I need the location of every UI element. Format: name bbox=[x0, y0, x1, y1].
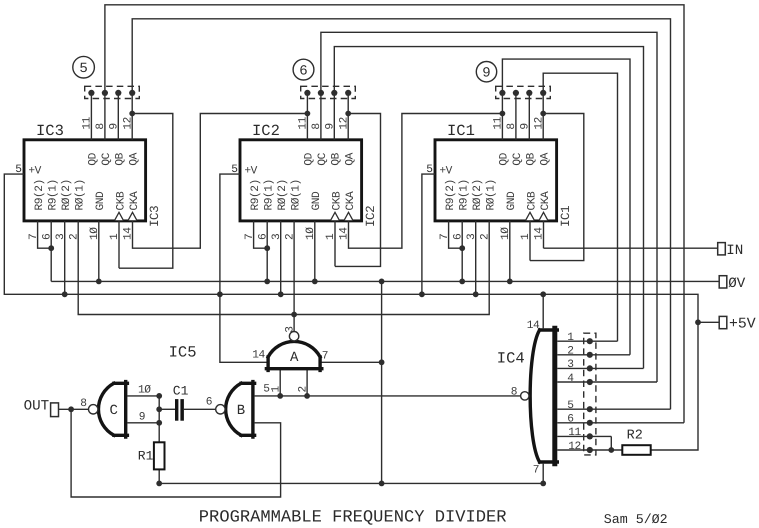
wire IC5 pin7 to 0V bbox=[320, 361, 382, 363]
clock triangle CKA IC3 bbox=[128, 212, 137, 220]
op-amp gate C IC5 bbox=[89, 382, 128, 437]
junction R9 IC2 bbox=[264, 245, 270, 251]
connector block IC3 bbox=[85, 86, 140, 98]
counter IC3 bbox=[24, 140, 146, 221]
clock triangle CKA IC2 bbox=[344, 212, 353, 220]
junction IC4 block pin 5 bbox=[587, 406, 593, 412]
svg-text:+V: +V bbox=[439, 166, 452, 178]
svg-text:IC1: IC1 bbox=[559, 206, 573, 227]
junction IC2 pin 8 block bbox=[318, 90, 324, 96]
junction R9 IC1 bbox=[459, 245, 465, 251]
nand IC4 bbox=[552, 328, 557, 463]
svg-text:CKA: CKA bbox=[540, 191, 552, 211]
junction IC4 block pin 3 bbox=[587, 365, 593, 371]
junction IC2 pin3 +V bbox=[278, 291, 284, 297]
svg-text:14: 14 bbox=[252, 349, 265, 361]
svg-text:8: 8 bbox=[95, 123, 107, 129]
wire IC3 top pin 8 bbox=[104, 93, 106, 140]
svg-text:QC: QC bbox=[317, 152, 329, 165]
wire IC2 top pin 8 bbox=[320, 93, 322, 140]
junction IC4 block pin 2 bbox=[587, 352, 593, 358]
circled 5 bbox=[73, 56, 95, 78]
wire gate A pin2 bbox=[306, 369, 308, 396]
wire IC1 top pin 9 bbox=[528, 93, 530, 140]
junction R9 IC3 bbox=[48, 245, 54, 251]
svg-text:R9(2): R9(2) bbox=[249, 179, 262, 210]
svg-text:6: 6 bbox=[299, 64, 307, 80]
svg-text:5: 5 bbox=[79, 61, 87, 77]
svg-text:RØ(1): RØ(1) bbox=[290, 179, 303, 210]
svg-text:9: 9 bbox=[482, 66, 490, 82]
svg-text:CKB: CKB bbox=[526, 191, 538, 211]
wire IC4 pin11 drop bbox=[610, 436, 612, 450]
op-amp gate A IC5 bbox=[266, 332, 321, 371]
connector +5V bbox=[719, 316, 727, 328]
svg-text:IC1: IC1 bbox=[447, 122, 475, 140]
wire IC1 pin3 bbox=[475, 221, 477, 294]
svg-text:+V: +V bbox=[244, 166, 257, 178]
wire IC4 pin 12 bbox=[557, 449, 622, 451]
wire B pin5 to IC4 pin8 bbox=[255, 395, 521, 397]
connector OUT bbox=[51, 403, 59, 417]
wire gate C pin9 bbox=[127, 422, 159, 424]
wire gate A pin1 bbox=[279, 369, 281, 396]
wire bus QC3 to IC4 pin6 bbox=[105, 5, 684, 423]
wire R1 bottom bbox=[158, 469, 160, 483]
svg-text:8: 8 bbox=[511, 387, 517, 399]
wire bus QB2 to IC4 pin3 bbox=[334, 47, 643, 369]
counter IC1 bbox=[435, 140, 557, 221]
junction IC3 pin3 +V bbox=[62, 291, 68, 297]
junction IC2 pin 11 block bbox=[304, 90, 310, 96]
wire C1 to B pin6 bbox=[184, 408, 216, 410]
svg-text:1Ø: 1Ø bbox=[138, 384, 151, 396]
junction IC1 pin 12 block bbox=[540, 90, 546, 96]
wire node to C1 bbox=[159, 408, 175, 410]
wire IC1 top pin 11 bbox=[501, 93, 503, 140]
wire IC3 top pin 12 bbox=[131, 93, 133, 140]
junction IC4 +V bbox=[540, 291, 546, 297]
wire IC2 top pin 11 bbox=[306, 93, 308, 140]
svg-text:R2: R2 bbox=[627, 429, 643, 444]
clock triangle CKB IC2 bbox=[331, 212, 340, 220]
wire IC3 top pin 9 bbox=[117, 93, 119, 140]
junction +5V bbox=[695, 319, 701, 325]
wire +V bus bbox=[4, 174, 698, 450]
svg-text:2: 2 bbox=[567, 346, 573, 358]
svg-text:QD: QD bbox=[499, 152, 511, 165]
svg-text:QB: QB bbox=[115, 152, 127, 165]
svg-text:R9(2): R9(2) bbox=[33, 179, 46, 210]
svg-text:CKA: CKA bbox=[129, 191, 141, 211]
resistor R1 bbox=[154, 442, 165, 469]
wire IC2 pin10 bbox=[314, 221, 316, 282]
junction QA1 bbox=[540, 111, 546, 117]
junction IC4 block pin 11 bbox=[587, 433, 593, 439]
svg-text:IC3: IC3 bbox=[148, 206, 162, 227]
svg-text:11: 11 bbox=[493, 116, 505, 129]
wire bus QD1 to IC4 pin2 bbox=[502, 59, 630, 355]
svg-text:3: 3 bbox=[284, 327, 296, 333]
resistor R2 bbox=[622, 445, 650, 455]
junction QD1 bbox=[500, 111, 506, 117]
svg-text:IN: IN bbox=[726, 243, 743, 259]
svg-text:CKA: CKA bbox=[345, 191, 357, 211]
svg-text:12: 12 bbox=[122, 117, 134, 130]
junction OUT bbox=[68, 406, 74, 412]
wire bus QC2 to IC4 pin4 bbox=[321, 32, 657, 382]
junction IC4 block pin 1 bbox=[587, 338, 593, 344]
svg-text:+5V: +5V bbox=[729, 317, 756, 333]
junction GND2 bbox=[312, 279, 318, 285]
junction IC2 pin 9 block bbox=[331, 90, 337, 96]
svg-text:4: 4 bbox=[567, 373, 574, 385]
connector 0V bbox=[719, 276, 727, 288]
svg-text:RØ(2): RØ(2) bbox=[276, 179, 289, 210]
svg-text:Sam 5/Ø2: Sam 5/Ø2 bbox=[604, 512, 668, 527]
svg-text:11: 11 bbox=[82, 116, 94, 129]
wire IN to CKA1 bbox=[544, 221, 718, 248]
wire reset bus bbox=[78, 221, 489, 315]
wire IC3 pin1 bbox=[118, 221, 120, 268]
svg-text:QC: QC bbox=[512, 152, 524, 165]
wire IC3 pin10 bbox=[98, 221, 100, 282]
wire IC4 pin 11 bbox=[557, 435, 611, 437]
counter IC2 bbox=[240, 140, 362, 221]
junction 0V drop bbox=[379, 279, 385, 285]
clock triangle CKB IC3 bbox=[115, 212, 124, 220]
svg-text:B: B bbox=[237, 403, 245, 419]
svg-text:5: 5 bbox=[263, 384, 269, 396]
wire IC4 pin 3 bbox=[557, 367, 643, 369]
connector block IC4 bbox=[584, 333, 596, 455]
junction IC1 +V bbox=[419, 291, 425, 297]
svg-text:8: 8 bbox=[80, 398, 86, 410]
wire IC1 pin5 bbox=[422, 174, 435, 294]
svg-text:R9(1): R9(1) bbox=[47, 179, 60, 210]
wire QD1 to CKA2 bbox=[349, 114, 503, 249]
svg-text:8: 8 bbox=[311, 123, 323, 129]
svg-text:6: 6 bbox=[567, 414, 573, 426]
wire IC3 pin3 bbox=[64, 221, 66, 294]
wire IC4 pin 2 bbox=[557, 354, 630, 356]
wire IC1 pin6 bbox=[461, 221, 463, 282]
junction IC2 pin6 0V bbox=[264, 279, 270, 285]
svg-text:QB: QB bbox=[526, 152, 538, 165]
junction C node C1 bbox=[156, 406, 162, 412]
svg-text:R9(2): R9(2) bbox=[444, 179, 457, 210]
svg-text:2: 2 bbox=[298, 386, 310, 392]
op-amp gate B IC5 bbox=[216, 382, 255, 437]
svg-text:12: 12 bbox=[338, 117, 350, 130]
junction IC4 block pin 4 bbox=[587, 379, 593, 385]
circled 6 bbox=[293, 59, 314, 80]
wire IC2 top pin 9 bbox=[333, 93, 335, 140]
wire IC2 pin6 bbox=[266, 221, 268, 282]
connector IN bbox=[718, 243, 726, 255]
wire feedback OUT to B pin4 bbox=[71, 409, 281, 497]
junction IC2 +V bbox=[217, 291, 223, 297]
wire IC2 pin3 bbox=[280, 221, 282, 294]
svg-text:R9(1): R9(1) bbox=[263, 179, 276, 210]
svg-text:8: 8 bbox=[506, 123, 518, 129]
svg-text:9: 9 bbox=[520, 123, 532, 129]
wire QD2 to CKA3 bbox=[133, 114, 308, 249]
junction IC1 pin 9 block bbox=[526, 90, 532, 96]
svg-text:IC3: IC3 bbox=[36, 122, 64, 140]
junction IC3 pin 8 block bbox=[102, 90, 108, 96]
svg-text:12: 12 bbox=[568, 441, 581, 453]
svg-text:C1: C1 bbox=[173, 383, 189, 398]
wire gnd rail bbox=[159, 482, 543, 484]
junction C pin9 bbox=[156, 420, 162, 426]
junction A pin2 bbox=[304, 393, 310, 399]
junction QA3 bbox=[129, 111, 135, 117]
svg-text:1: 1 bbox=[567, 332, 574, 344]
junction IC4 pin11 pin12 bbox=[608, 447, 614, 453]
svg-text:QD: QD bbox=[88, 152, 100, 165]
junction IC1 pin3 +V bbox=[473, 291, 479, 297]
wire gate C pin10 bbox=[127, 395, 159, 397]
wire IC4 pin 5 bbox=[557, 408, 670, 410]
wire IC1 pin7 tie bbox=[449, 221, 463, 248]
circled 9 bbox=[476, 61, 496, 81]
svg-text:RØ(2): RØ(2) bbox=[60, 179, 73, 210]
junction IC4 block pin 6 bbox=[587, 420, 593, 426]
wire IC4 pin 6 bbox=[557, 422, 684, 424]
wire IC1 pin1 bbox=[529, 221, 531, 261]
svg-text:1: 1 bbox=[271, 386, 283, 393]
junction GND3 bbox=[96, 279, 102, 285]
svg-text:A: A bbox=[290, 350, 299, 366]
svg-text:QA: QA bbox=[345, 152, 357, 165]
junction IC4 block pin 12 bbox=[587, 447, 593, 453]
svg-text:C: C bbox=[110, 403, 118, 419]
junction C pin10 bbox=[156, 393, 162, 399]
svg-text:7: 7 bbox=[322, 351, 328, 363]
wire IC2 top pin 12 bbox=[347, 93, 349, 140]
junction R1 rail bbox=[156, 481, 162, 487]
svg-text:GND: GND bbox=[95, 191, 107, 211]
svg-text:11: 11 bbox=[568, 427, 581, 439]
svg-text:9: 9 bbox=[109, 123, 121, 129]
svg-text:QD: QD bbox=[304, 152, 316, 165]
connector block IC1 bbox=[496, 86, 551, 98]
wire IC4 pin7 bbox=[542, 464, 544, 484]
svg-text:CKB: CKB bbox=[115, 191, 127, 211]
wire 0V bus bbox=[38, 221, 720, 282]
svg-text:GND: GND bbox=[506, 191, 518, 211]
wire IC2 pin2 to gate A out bbox=[293, 221, 295, 332]
svg-text:ØV: ØV bbox=[728, 276, 746, 292]
wire IC1 top pin 8 bbox=[515, 93, 517, 140]
wire OUT to gate C bbox=[59, 408, 89, 410]
clock triangle CKA IC1 bbox=[539, 212, 548, 220]
svg-text:9: 9 bbox=[139, 411, 145, 423]
svg-text:11: 11 bbox=[298, 116, 310, 129]
junction IC1 pin 11 block bbox=[499, 90, 505, 96]
junction reset bbox=[291, 312, 297, 318]
junction IC4 pin7 rail bbox=[540, 481, 546, 487]
svg-text:IC4: IC4 bbox=[497, 350, 525, 368]
junction 0V rail bbox=[379, 481, 385, 487]
junction IC1 pin6 0V bbox=[459, 279, 465, 285]
svg-text:3: 3 bbox=[567, 359, 573, 371]
junction IC2 pin 12 block bbox=[345, 90, 351, 96]
svg-text:14: 14 bbox=[527, 320, 540, 332]
junction QD2 bbox=[305, 111, 311, 117]
wire QA1 to CKB1 bbox=[530, 114, 584, 261]
wire QA2 to CKB2 bbox=[335, 114, 381, 267]
wire IC4 pin 4 bbox=[557, 381, 657, 383]
svg-text:RØ(1): RØ(1) bbox=[74, 179, 87, 210]
svg-text:IC5: IC5 bbox=[169, 343, 197, 361]
wire IC1 top pin 12 bbox=[542, 93, 544, 140]
svg-text:QB: QB bbox=[331, 152, 343, 165]
svg-text:9: 9 bbox=[325, 123, 337, 129]
svg-text:+V: +V bbox=[28, 166, 41, 178]
svg-text:7: 7 bbox=[533, 464, 539, 476]
svg-text:R1: R1 bbox=[138, 448, 154, 463]
wire IC2 pin1 bbox=[334, 221, 336, 267]
capacitor C1 bbox=[175, 399, 178, 421]
wire C input node bbox=[158, 396, 160, 442]
junction IC1 pin 8 block bbox=[513, 90, 519, 96]
svg-text:CKB: CKB bbox=[331, 191, 343, 211]
svg-text:PROGRAMMABLE FREQUENCY DIVIDER: PROGRAMMABLE FREQUENCY DIVIDER bbox=[199, 509, 507, 528]
wire IC3 top pin 11 bbox=[90, 93, 92, 140]
junction IC3 pin 11 block bbox=[88, 90, 94, 96]
wire QA3 to CKB3 bbox=[119, 114, 173, 269]
connector block IC2 bbox=[301, 86, 356, 98]
wire IC4 pin 1 bbox=[557, 340, 617, 342]
svg-text:IC2: IC2 bbox=[364, 206, 378, 227]
svg-text:QA: QA bbox=[129, 152, 141, 165]
junction IC3 pin 12 block bbox=[129, 90, 135, 96]
clock triangle CKB IC1 bbox=[526, 212, 535, 220]
wire IC2 pin7 tie bbox=[254, 221, 268, 248]
junction GND1 bbox=[507, 279, 513, 285]
junction IC5 pin7 bbox=[379, 359, 385, 365]
wire bus QA1 to IC4 pin1 bbox=[543, 73, 617, 341]
wire IC2 pin5 to IC5 pin14 bbox=[220, 174, 269, 362]
wire IC1 pin10 bbox=[509, 221, 511, 282]
wire IC4 pin14 bbox=[542, 294, 544, 328]
svg-text:OUT: OUT bbox=[24, 399, 50, 415]
junction IC3 pin 9 block bbox=[115, 90, 121, 96]
wire +5V connector bbox=[698, 321, 719, 323]
svg-text:GND: GND bbox=[311, 191, 323, 211]
svg-text:5: 5 bbox=[567, 400, 573, 412]
junction QA2 bbox=[345, 111, 351, 117]
svg-text:RØ(1): RØ(1) bbox=[485, 179, 498, 210]
svg-text:QA: QA bbox=[540, 152, 552, 165]
svg-text:12: 12 bbox=[533, 117, 545, 130]
svg-text:IC2: IC2 bbox=[252, 122, 280, 140]
svg-text:6: 6 bbox=[206, 396, 212, 408]
wire bus QA3 to IC4 pin5 bbox=[132, 19, 670, 409]
wire 0V drop to IC5 bbox=[381, 281, 383, 483]
svg-text:RØ(2): RØ(2) bbox=[471, 179, 484, 210]
junction A pin1 bbox=[277, 393, 283, 399]
svg-text:QC: QC bbox=[101, 152, 113, 165]
svg-text:R9(1): R9(1) bbox=[458, 179, 471, 210]
